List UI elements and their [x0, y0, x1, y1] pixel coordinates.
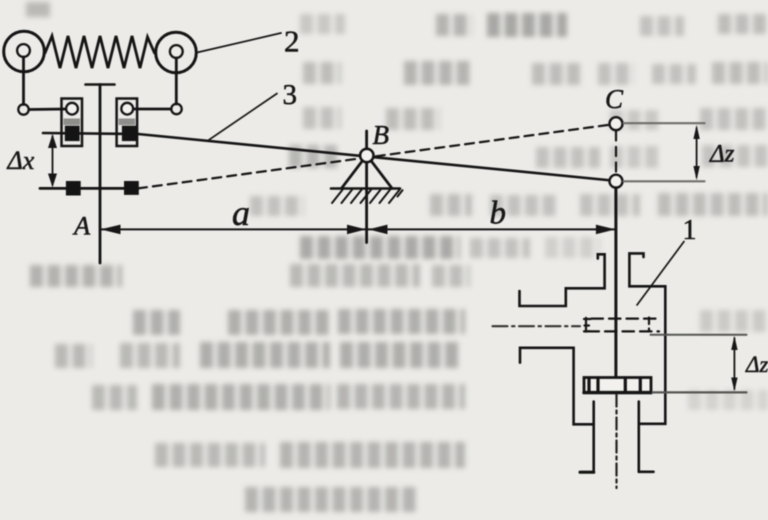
svg-text:b: b [490, 196, 507, 232]
pulley left (item 2) [4, 31, 45, 72]
reference line from lower node [624, 180, 705, 182]
svg-text:1: 1 [683, 215, 697, 246]
guide bracket right [117, 99, 138, 147]
bleed-through faint text background [0, 0, 768, 1]
arrow at rod A [101, 225, 121, 235]
dx arrowhead up [48, 134, 57, 148]
dimension dz upper shaft [696, 128, 698, 177]
spring between pulleys [45, 36, 155, 68]
node C circle [610, 117, 623, 130]
hidden hole dashed left edge (e-mark) [584, 318, 591, 332]
inner leg left [592, 402, 595, 472]
wheel bottom thick edge [584, 391, 651, 394]
svg-text:a: a [232, 193, 250, 233]
dz lower: lower reference line [653, 391, 747, 393]
wheel knurl lines [589, 378, 640, 392]
link left [29, 108, 67, 111]
svg-text:C: C [605, 84, 624, 114]
rod A T-top [86, 83, 115, 86]
hidden hole dashed bottom [588, 330, 660, 332]
arrow at right rod [596, 225, 616, 235]
rod A vertical [99, 85, 102, 264]
dashed tilted lever position [138, 125, 611, 189]
foot left [580, 471, 594, 474]
dashed vertical C to node [615, 132, 617, 175]
pivot B circle [360, 149, 373, 162]
pin stem right [175, 58, 178, 104]
svg-text:2: 2 [284, 23, 300, 58]
svg-text:Δx: Δx [7, 146, 35, 175]
foot right [639, 470, 654, 473]
dz lower arrowhead up [731, 336, 737, 350]
dx arrowhead down [48, 174, 57, 188]
slider block lower-left [66, 181, 81, 196]
measuring rod (to device 1) [614, 188, 617, 392]
arrows meeting at B line [347, 225, 366, 235]
hidden hole dashed right edge [648, 318, 650, 332]
device case: lower-left step and wall [520, 348, 594, 425]
svg-text:Δz: Δz [709, 140, 735, 167]
slider block upper-left [65, 126, 80, 141]
hidden hole dashed top [592, 318, 662, 320]
pivot B triangle [342, 161, 393, 189]
leader line to label 2 [197, 33, 281, 53]
guide bracket left [62, 99, 83, 147]
knurled wheel [584, 378, 651, 393]
dz lower shaft [733, 338, 735, 389]
device case: upper-left staircase [520, 254, 605, 306]
dz lower: upper reference line [651, 334, 747, 336]
slider block upper-right [122, 126, 137, 141]
lower position line [40, 187, 138, 190]
dz arrowhead down [693, 166, 699, 180]
dimension dx shaft [52, 136, 54, 185]
lever 3 solid line [43, 133, 612, 181]
pivot B vertical line [365, 131, 368, 243]
reference line from C [624, 122, 705, 124]
pin stem left [22, 57, 25, 105]
svg-text:Δz: Δz [745, 352, 768, 377]
pin joint circles [18, 104, 28, 114]
svg-text:B: B [373, 120, 390, 150]
horizontal axis centerline (dash-dot) [493, 325, 581, 327]
dimension line a-b [101, 228, 616, 230]
vertical centerline below wheel (dash-dot) [615, 395, 617, 489]
svg-text:A: A [72, 210, 91, 240]
pulley right (item 2) [156, 32, 197, 73]
slider block lower-right [124, 181, 139, 195]
leader line to label 1 [637, 242, 684, 306]
lower node circle [610, 175, 623, 188]
inner leg right [637, 402, 640, 472]
ground line at B [331, 187, 400, 190]
dz arrowhead up [693, 125, 699, 139]
svg-text:3: 3 [283, 79, 298, 111]
link right [133, 108, 171, 111]
dz lower arrowhead down [731, 378, 737, 392]
device case: right hook and wall [629, 253, 665, 423]
leader line to label 3 [209, 94, 277, 140]
ground hatching [332, 190, 403, 203]
